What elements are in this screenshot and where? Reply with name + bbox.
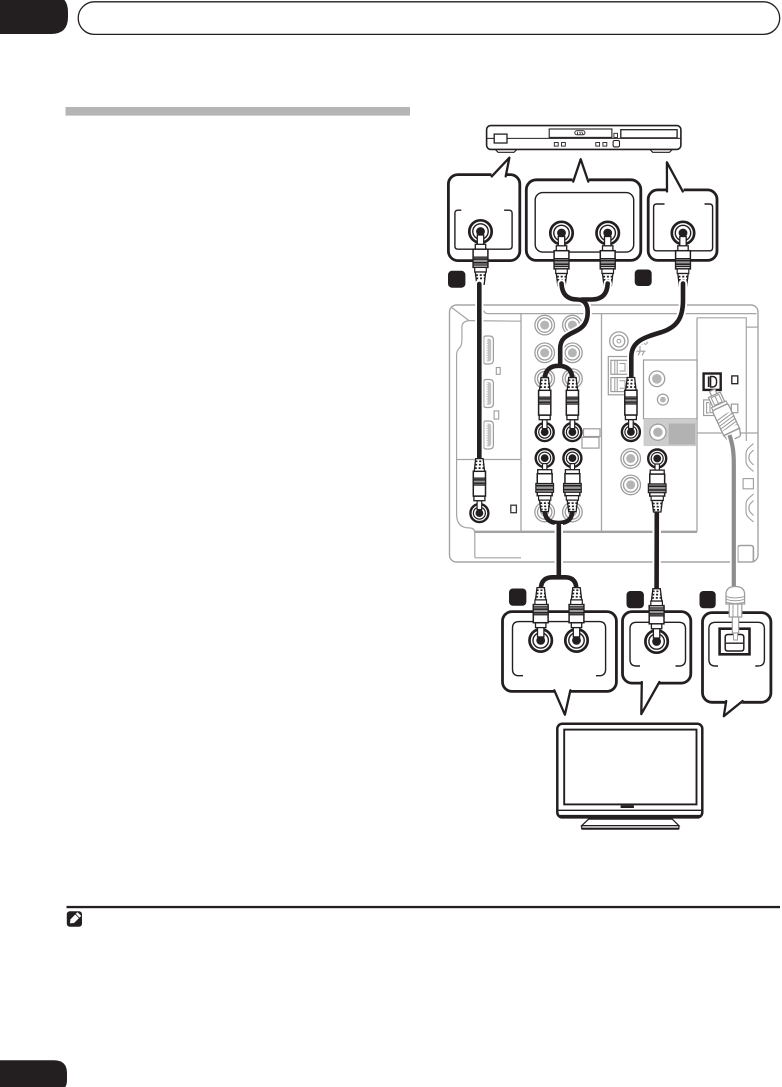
gray jack row2 left	[535, 343, 555, 363]
top-left bevel	[451, 307, 469, 321]
plug monitor out L	[536, 464, 554, 512]
wire: monitor split arch	[541, 577, 576, 589]
wire: audio pair merge casing	[560, 284, 588, 366]
plug tv audio in	[569, 588, 584, 637]
page tab bottom-left	[0, 1060, 67, 1087]
label square A	[448, 271, 465, 288]
optical digital port	[704, 374, 721, 390]
plug audio out L	[554, 237, 569, 286]
antenna symbol	[639, 341, 644, 344]
plug video out 2	[676, 237, 691, 286]
panel inset outline	[709, 622, 765, 666]
jack video out	[469, 220, 491, 242]
panel case	[450, 305, 759, 562]
callout pointer	[492, 158, 510, 178]
optical port in tv	[720, 629, 750, 655]
right foot	[738, 546, 754, 563]
wire: audio split arch	[545, 366, 573, 380]
TV	[557, 724, 702, 829]
label square E	[700, 591, 716, 608]
small gray square	[731, 404, 737, 413]
highlighted jack	[650, 424, 666, 440]
HDMI connector 2	[484, 380, 494, 408]
dvd small button	[614, 133, 618, 137]
HDMI connector 1	[484, 336, 494, 364]
section dividers	[520, 314, 522, 532]
plug monitor out R	[564, 464, 582, 512]
callout middle (audio out)	[526, 159, 641, 286]
wire: tv audio cable casing	[652, 512, 661, 589]
note icon	[67, 911, 82, 927]
jack audio in L	[536, 423, 554, 441]
CD input box	[644, 360, 698, 419]
CD jack large	[649, 371, 665, 387]
callout box	[503, 612, 617, 692]
plug audio out R	[600, 237, 615, 286]
panel inset outline	[654, 204, 713, 251]
terminal plate	[743, 479, 753, 489]
left section top edge	[469, 320, 521, 323]
tv logo bar	[621, 805, 634, 808]
jack tv audio	[648, 450, 666, 468]
wire: audio left branch	[560, 284, 588, 366]
label square D	[627, 591, 644, 608]
inner left edge and foot	[457, 321, 475, 558]
jack monitor out L	[536, 449, 554, 467]
callout box	[703, 613, 771, 703]
page tab top-left	[0, 0, 68, 34]
callout pointer	[641, 681, 660, 714]
receiver jacks and inserted plugs	[470, 378, 745, 589]
bottom callout left (tv video+audio in)	[503, 588, 617, 715]
gray jack row6 left	[535, 502, 555, 522]
jack tv audio	[645, 630, 667, 652]
label square B	[635, 270, 652, 287]
dvd display window	[621, 130, 677, 138]
plug video in	[473, 459, 485, 510]
tv body	[557, 724, 702, 818]
dvd foot right	[650, 149, 673, 152]
section heading bar	[66, 107, 411, 116]
header outline	[78, 2, 780, 35]
small square near video jack	[511, 505, 517, 513]
dvd power button	[494, 134, 507, 143]
jack audio out R	[597, 222, 619, 244]
highlighted input box	[644, 419, 697, 446]
dvd disc tray	[549, 129, 612, 137]
gray jack row1 right	[563, 315, 583, 335]
left section divider	[457, 459, 522, 461]
plug tv audio	[648, 464, 666, 512]
plug tv video in	[533, 588, 548, 637]
small square between HDMI 1-2	[496, 368, 500, 375]
jack video in	[470, 504, 488, 522]
wire: left video cable casing	[475, 284, 483, 458]
callout box	[526, 180, 641, 261]
AM antenna terminal block	[608, 357, 629, 395]
dvd foot left	[495, 149, 517, 152]
plug video out	[473, 235, 488, 284]
plug audio in L	[539, 378, 551, 429]
dvd body	[487, 126, 681, 150]
tv stand	[589, 818, 673, 820]
wire: left video cable	[477, 284, 482, 458]
wire: audio right branch	[582, 284, 608, 300]
gray jack row6 right	[563, 502, 583, 522]
FM antenna jack	[610, 332, 628, 350]
cables	[479, 284, 683, 590]
gray optical port 2	[704, 400, 720, 416]
jack tv video in	[530, 629, 552, 651]
panel inset outline	[630, 622, 686, 666]
panel inset outline	[513, 622, 606, 676]
callout box	[448, 175, 519, 261]
jack video out 2	[672, 222, 694, 244]
callout box	[648, 190, 717, 261]
wire: right video cable	[631, 284, 683, 377]
plug video in 2	[625, 378, 637, 429]
label square C	[509, 589, 526, 606]
receiver rear panel	[450, 305, 759, 562]
plug tv audio	[649, 589, 664, 638]
jack audio in R	[563, 423, 581, 441]
tv screen	[564, 730, 696, 805]
wire: monitor-out down casing	[555, 524, 563, 577]
dvd front divider	[487, 137, 681, 139]
callout box	[623, 612, 691, 684]
ground symbol	[634, 346, 646, 356]
jack video in 2	[622, 423, 640, 441]
HDMI connector 3	[484, 421, 494, 449]
right section top step	[697, 318, 758, 327]
DVD player	[487, 126, 681, 153]
gray jack row3 left	[535, 369, 555, 389]
bottom callout middle (tv audio in)	[623, 589, 691, 714]
optical plug on receiver	[701, 385, 745, 444]
wire: monitor-out U join	[545, 510, 573, 524]
wire: optical cable	[730, 435, 734, 588]
callout pointer	[724, 700, 743, 716]
dvd logo	[575, 131, 585, 135]
small label rects right of video jacks	[584, 429, 601, 437]
gray jack row1 left	[535, 315, 555, 335]
inner top edge	[484, 311, 757, 314]
callout left (video out)	[448, 158, 519, 285]
gray jack row3 right	[563, 369, 583, 389]
speaker terminal knob bottom	[746, 494, 754, 522]
dvd buttons	[554, 143, 558, 147]
jack audio out L	[550, 222, 572, 244]
panel inset outline	[535, 193, 634, 253]
gray jack row2 right	[563, 343, 583, 363]
plug audio in R	[566, 378, 578, 429]
jack tv audio in	[565, 629, 587, 651]
wire: tv audio cable	[654, 512, 659, 589]
wire: right video cable casing	[631, 284, 683, 377]
callout right (video out 2)	[648, 162, 717, 285]
back panel bottom rule	[475, 531, 697, 533]
bottom callout right (tv optical in)	[703, 587, 771, 717]
panel inset outline	[455, 210, 512, 249]
jack monitor out R	[563, 449, 581, 467]
inner bottom edge	[475, 557, 521, 559]
small square between HDMI 2-3	[494, 411, 499, 419]
callout pointer	[554, 689, 571, 715]
gray jack vcr video	[621, 449, 641, 469]
tv bottom trim	[557, 809, 702, 811]
callout pointer	[666, 162, 683, 192]
note rule	[67, 906, 781, 908]
gray jack vcr audio	[621, 475, 641, 495]
wire: optical cable casing	[730, 435, 734, 588]
optical plug into tv	[726, 587, 745, 641]
callout pointer	[573, 159, 589, 183]
small square right of optical	[732, 376, 738, 384]
speaker terminal knob top	[746, 444, 754, 472]
CD jack small	[657, 394, 668, 405]
